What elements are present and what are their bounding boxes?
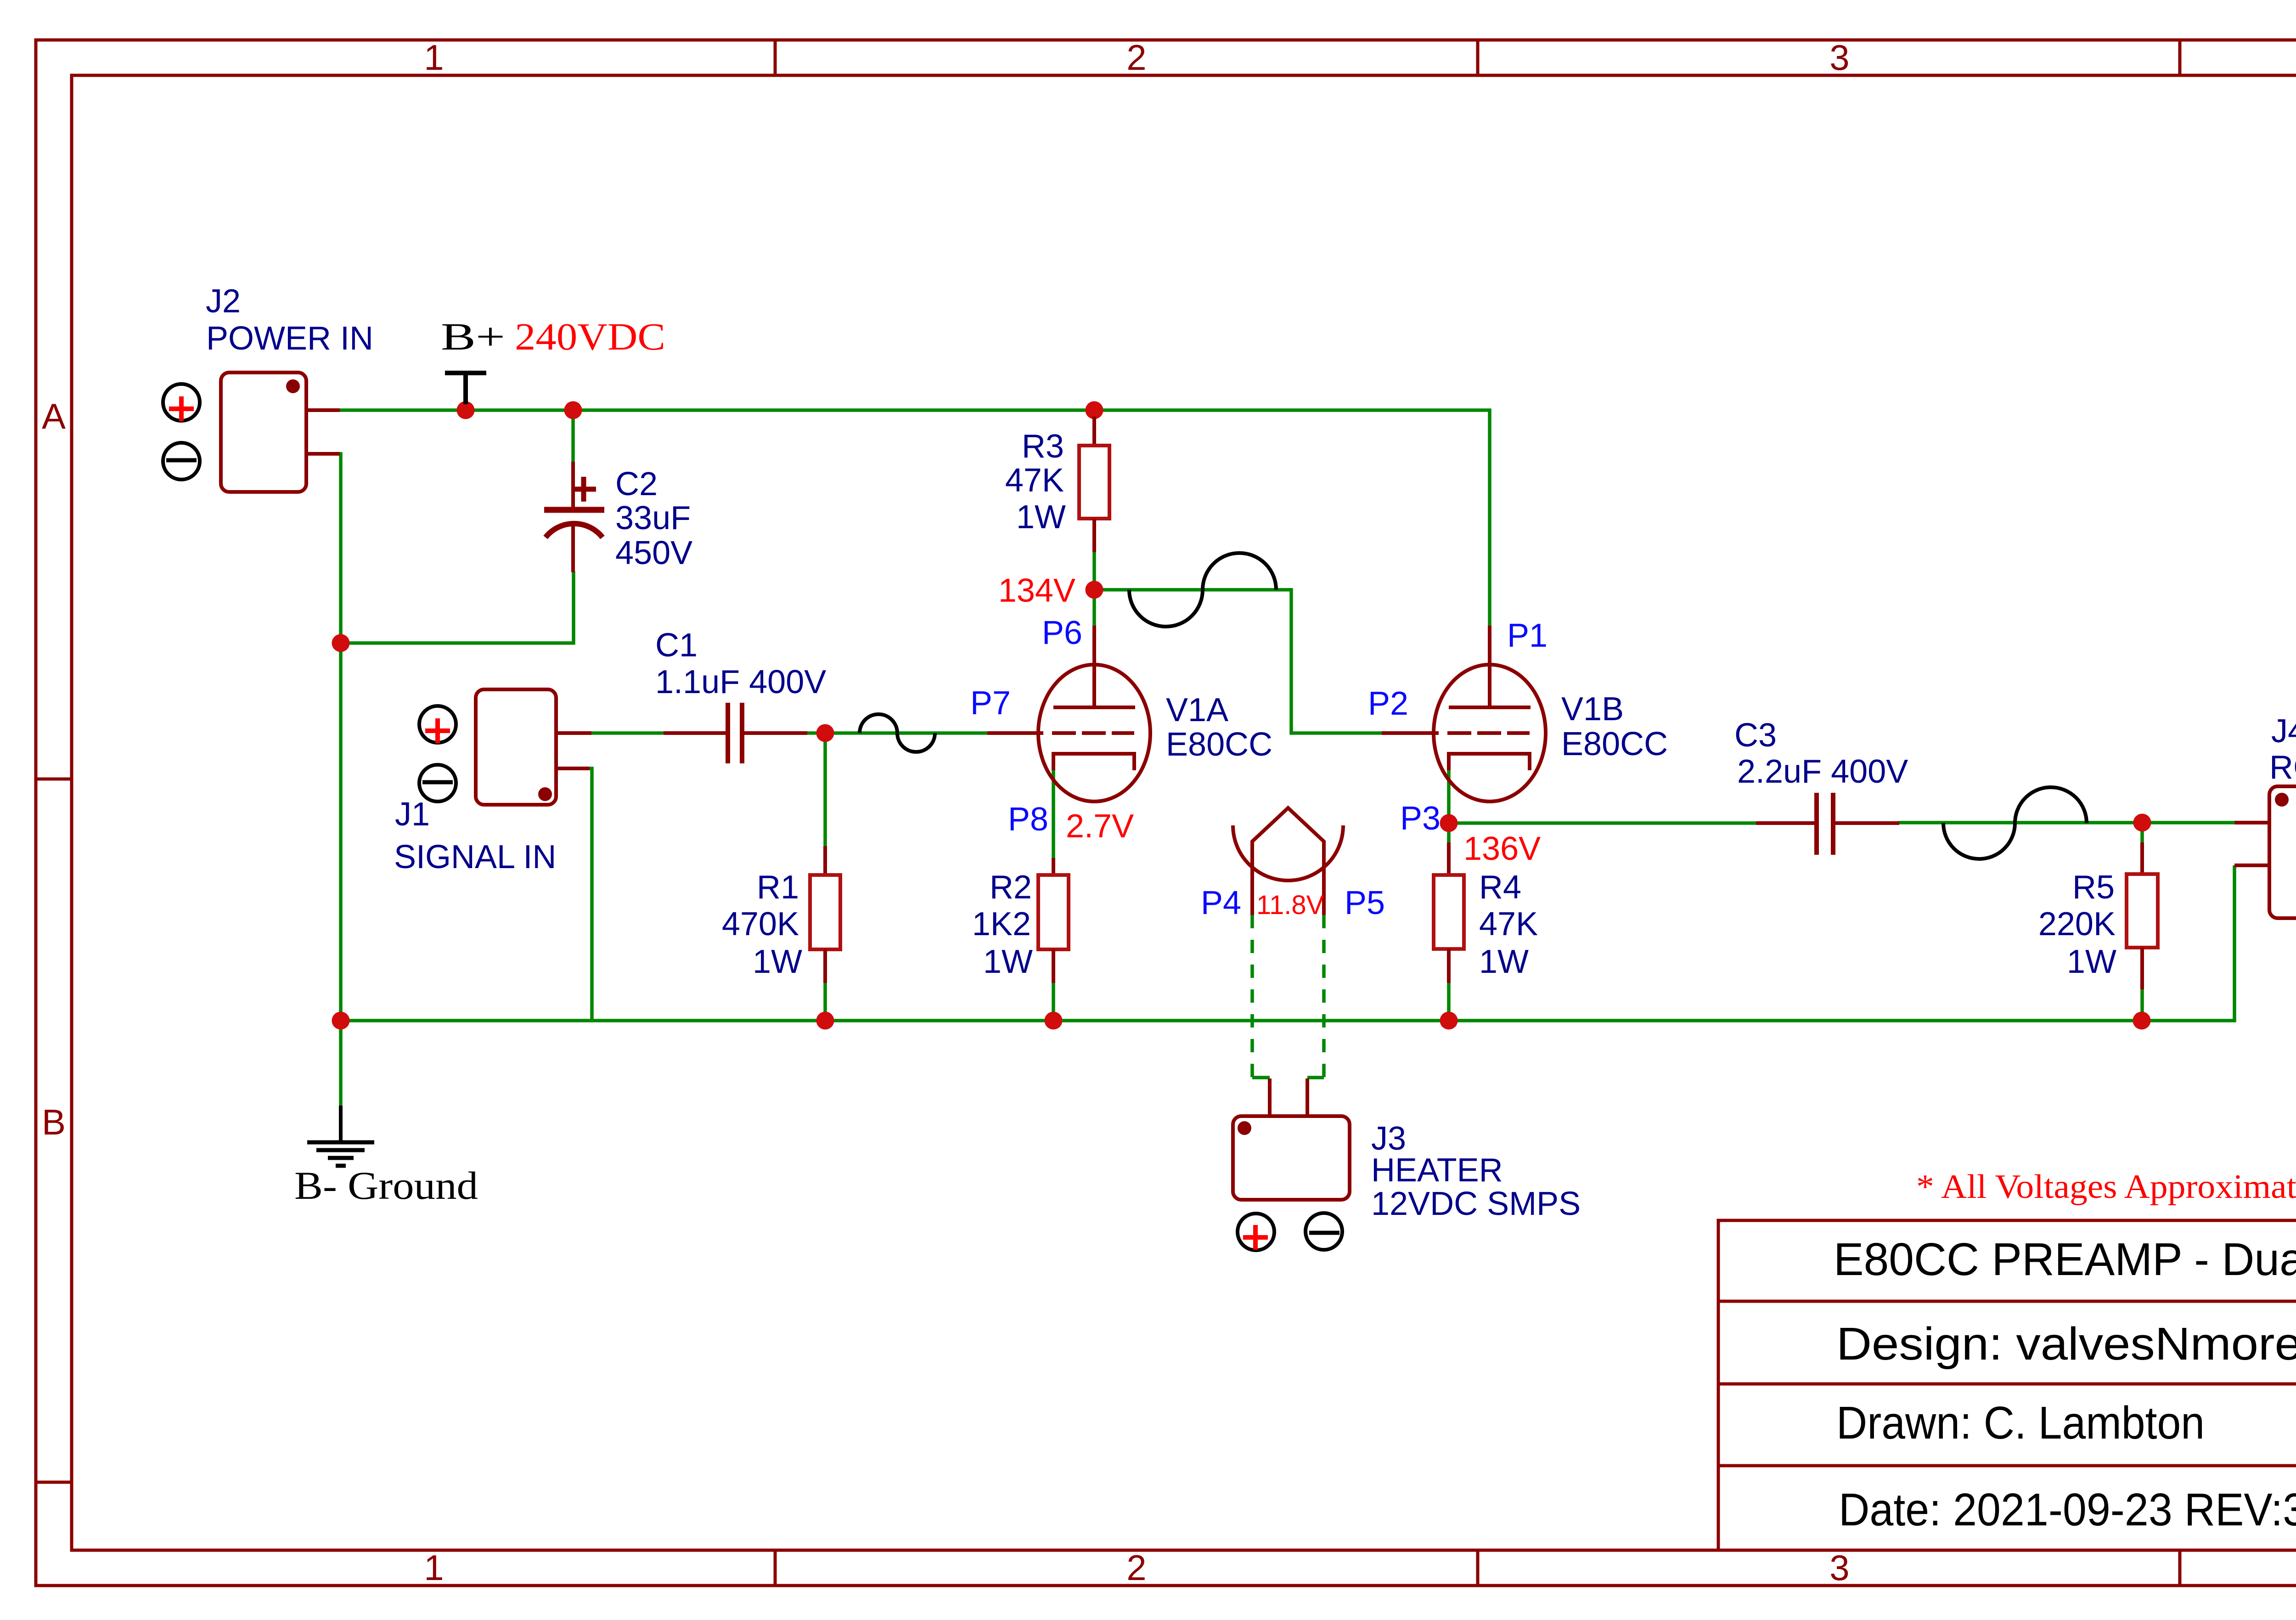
J3 plus symbol xyxy=(1238,1214,1274,1250)
resistor R1 xyxy=(810,846,840,983)
wire R1 top xyxy=(823,733,827,847)
input squiggle xyxy=(860,714,935,752)
svg-text:P7: P7 xyxy=(970,685,1011,722)
wire R2 bottom xyxy=(1052,982,1055,1021)
wire B+ top rail xyxy=(339,410,1490,626)
svg-text:2.7V: 2.7V xyxy=(1066,808,1134,845)
svg-text:POWER IN: POWER IN xyxy=(206,320,373,357)
node ground junction xyxy=(332,1012,350,1030)
svg-text:Date: 2021-09-23 REV:3.0: Date: 2021-09-23 REV:3.0 xyxy=(1839,1484,2296,1535)
svg-text:2: 2 xyxy=(1126,37,1146,78)
connector J3 xyxy=(1233,1078,1350,1200)
svg-text:Design: valvesNmore.com: Design: valvesNmore.com xyxy=(1836,1318,2296,1370)
wire C2 branch xyxy=(341,571,574,643)
svg-text:1W: 1W xyxy=(983,943,1033,980)
node C2 top junction xyxy=(564,401,582,419)
resistor R4 xyxy=(1434,842,1464,983)
heater symbol xyxy=(1233,808,1343,915)
V1B cathode xyxy=(1449,754,1530,770)
svg-text:E80CC PREAMP - Dual Mono: E80CC PREAMP - Dual Mono xyxy=(1834,1234,2296,1285)
svg-text:R3: R3 xyxy=(1022,428,1064,465)
svg-text:P4: P4 xyxy=(1201,885,1241,921)
resistor R2 xyxy=(1038,858,1069,983)
svg-text:E80CC: E80CC xyxy=(1166,726,1272,763)
wire V1B cathode to P3 xyxy=(1447,769,1451,823)
wire R3 bottom to 134V xyxy=(1092,551,1096,627)
svg-text:J2: J2 xyxy=(206,283,241,320)
J1 minus symbol xyxy=(419,765,456,802)
connector J4 xyxy=(2234,786,2296,918)
resistor R3 xyxy=(1079,417,1109,552)
svg-text:P5: P5 xyxy=(1345,885,1385,921)
svg-text:C1: C1 xyxy=(655,627,698,664)
svg-text:SIGNAL IN: SIGNAL IN xyxy=(394,839,556,875)
node R4 bottom junction xyxy=(1440,1012,1458,1030)
svg-text:V1A: V1A xyxy=(1166,692,1228,728)
V1A anode xyxy=(1053,706,1135,709)
svg-text:V1B: V1B xyxy=(1561,691,1624,728)
wire C3 to J4 xyxy=(1898,821,2234,824)
tube V1A xyxy=(987,626,1150,802)
svg-text:J4: J4 xyxy=(2271,713,2296,750)
134V squiggle xyxy=(1129,553,1276,627)
node B+ junction xyxy=(457,401,475,419)
svg-text:1W: 1W xyxy=(2067,943,2116,980)
node R1 bottom junction xyxy=(816,1012,834,1030)
resistor R5 xyxy=(2127,842,2158,989)
J3 minus symbol xyxy=(1306,1213,1342,1250)
wire R4 top xyxy=(1447,823,1451,843)
svg-text:P1: P1 xyxy=(1507,617,1548,654)
svg-text:3: 3 xyxy=(1829,1547,1849,1588)
wire J2 minus down xyxy=(339,454,341,1021)
wire R5 top xyxy=(2140,823,2144,843)
node R5 top junction xyxy=(2133,814,2151,832)
svg-text:47K: 47K xyxy=(1005,462,1064,499)
wire bottom rail xyxy=(341,865,2234,1021)
svg-text:11.8V: 11.8V xyxy=(1256,890,1324,920)
svg-text:136V: 136V xyxy=(1463,830,1541,867)
svg-text:A: A xyxy=(42,396,66,436)
svg-text:E80CC: E80CC xyxy=(1561,726,1668,762)
svg-text:1W: 1W xyxy=(753,943,802,980)
connector J2 xyxy=(221,373,340,492)
svg-text:RCA OUT: RCA OUT xyxy=(2269,749,2296,786)
svg-text:1K2: 1K2 xyxy=(972,906,1031,943)
svg-text:240VDC: 240VDC xyxy=(515,316,665,358)
svg-text:B: B xyxy=(42,1102,66,1142)
svg-text:47K: 47K xyxy=(1479,906,1538,943)
svg-text:450V: 450V xyxy=(615,535,692,571)
svg-text:Drawn: C. Lambton: Drawn: C. Lambton xyxy=(1836,1397,2205,1449)
wire J1 minus down xyxy=(590,768,592,1021)
node C2 bottom junction xyxy=(332,634,350,652)
wire 134V to V1B grid xyxy=(1094,590,1382,733)
wire C2 top xyxy=(571,410,575,462)
svg-text:B- Ground: B- Ground xyxy=(294,1163,478,1208)
svg-text:1.1uF 400V: 1.1uF 400V xyxy=(655,664,826,700)
svg-text:220K: 220K xyxy=(2038,906,2116,943)
svg-text:P6: P6 xyxy=(1042,615,1082,651)
svg-text:134V: 134V xyxy=(998,572,1075,609)
wire C1 to grid V1A xyxy=(806,731,987,735)
capacitor C1 xyxy=(664,703,807,763)
svg-text:1W: 1W xyxy=(1016,499,1066,536)
wire V1A cathode xyxy=(1052,769,1055,859)
wire J1 plus to C1 xyxy=(591,731,664,735)
svg-text:P3: P3 xyxy=(1400,800,1441,837)
node R3 top junction xyxy=(1086,401,1103,419)
wire R5 bottom xyxy=(2140,988,2144,1021)
svg-text:2: 2 xyxy=(1126,1547,1146,1588)
wire P3 to C3 xyxy=(1449,821,1756,825)
svg-text:33uF: 33uF xyxy=(615,500,691,536)
output squiggle xyxy=(1943,787,2087,859)
svg-text:12VDC SMPS: 12VDC SMPS xyxy=(1371,1185,1581,1222)
node R5 bottom junction xyxy=(2133,1012,2151,1030)
svg-text:HEATER: HEATER xyxy=(1371,1152,1503,1189)
svg-text:C2: C2 xyxy=(615,466,658,502)
svg-text:3: 3 xyxy=(1829,37,1849,78)
svg-text:R4: R4 xyxy=(1479,869,1521,906)
J2 plus symbol xyxy=(163,384,200,421)
node R2 bottom junction xyxy=(1045,1012,1063,1030)
V1B anode xyxy=(1449,706,1531,709)
svg-text:B+: B+ xyxy=(441,316,505,358)
V1B grid xyxy=(1382,731,1439,735)
svg-text:R1: R1 xyxy=(757,869,799,906)
connector J1 xyxy=(476,689,591,805)
svg-text:C3: C3 xyxy=(1734,717,1777,754)
svg-text:1: 1 xyxy=(424,1547,444,1588)
J2 minus symbol xyxy=(163,443,200,480)
wire ground stem xyxy=(339,1021,343,1106)
ground xyxy=(307,1106,374,1166)
tube V1B xyxy=(1382,626,1546,802)
node C1 out junction xyxy=(816,724,834,742)
wire R4 bottom xyxy=(1447,982,1451,1021)
B+ terminal xyxy=(445,373,486,404)
wire heater dashed xyxy=(1252,915,1324,1078)
svg-text:J3: J3 xyxy=(1371,1120,1406,1157)
wire R3 top xyxy=(1092,410,1096,418)
title block xyxy=(1718,1220,2296,1550)
capacitor C2 xyxy=(544,462,604,572)
svg-text:P2: P2 xyxy=(1368,685,1408,722)
svg-text:1: 1 xyxy=(424,37,444,78)
V1A cathode xyxy=(1053,754,1134,770)
capacitor C3 xyxy=(1756,793,1899,855)
wire R1 bottom xyxy=(823,982,827,1021)
svg-text:2.2uF 400V: 2.2uF 400V xyxy=(1737,753,1908,790)
node 134V junction xyxy=(1086,581,1103,599)
svg-text:J1: J1 xyxy=(395,796,430,833)
svg-text:P8: P8 xyxy=(1008,801,1048,838)
svg-text:R5: R5 xyxy=(2072,869,2115,906)
node P3 junction xyxy=(1440,814,1458,832)
svg-text:470K: 470K xyxy=(722,906,799,943)
V1A grid xyxy=(987,731,1043,735)
J1 plus symbol xyxy=(419,706,456,743)
svg-text:1W: 1W xyxy=(1479,943,1529,980)
svg-text:R2: R2 xyxy=(990,869,1032,906)
svg-text:* All Voltages Approximate *: * All Voltages Approximate * xyxy=(1916,1168,2296,1206)
